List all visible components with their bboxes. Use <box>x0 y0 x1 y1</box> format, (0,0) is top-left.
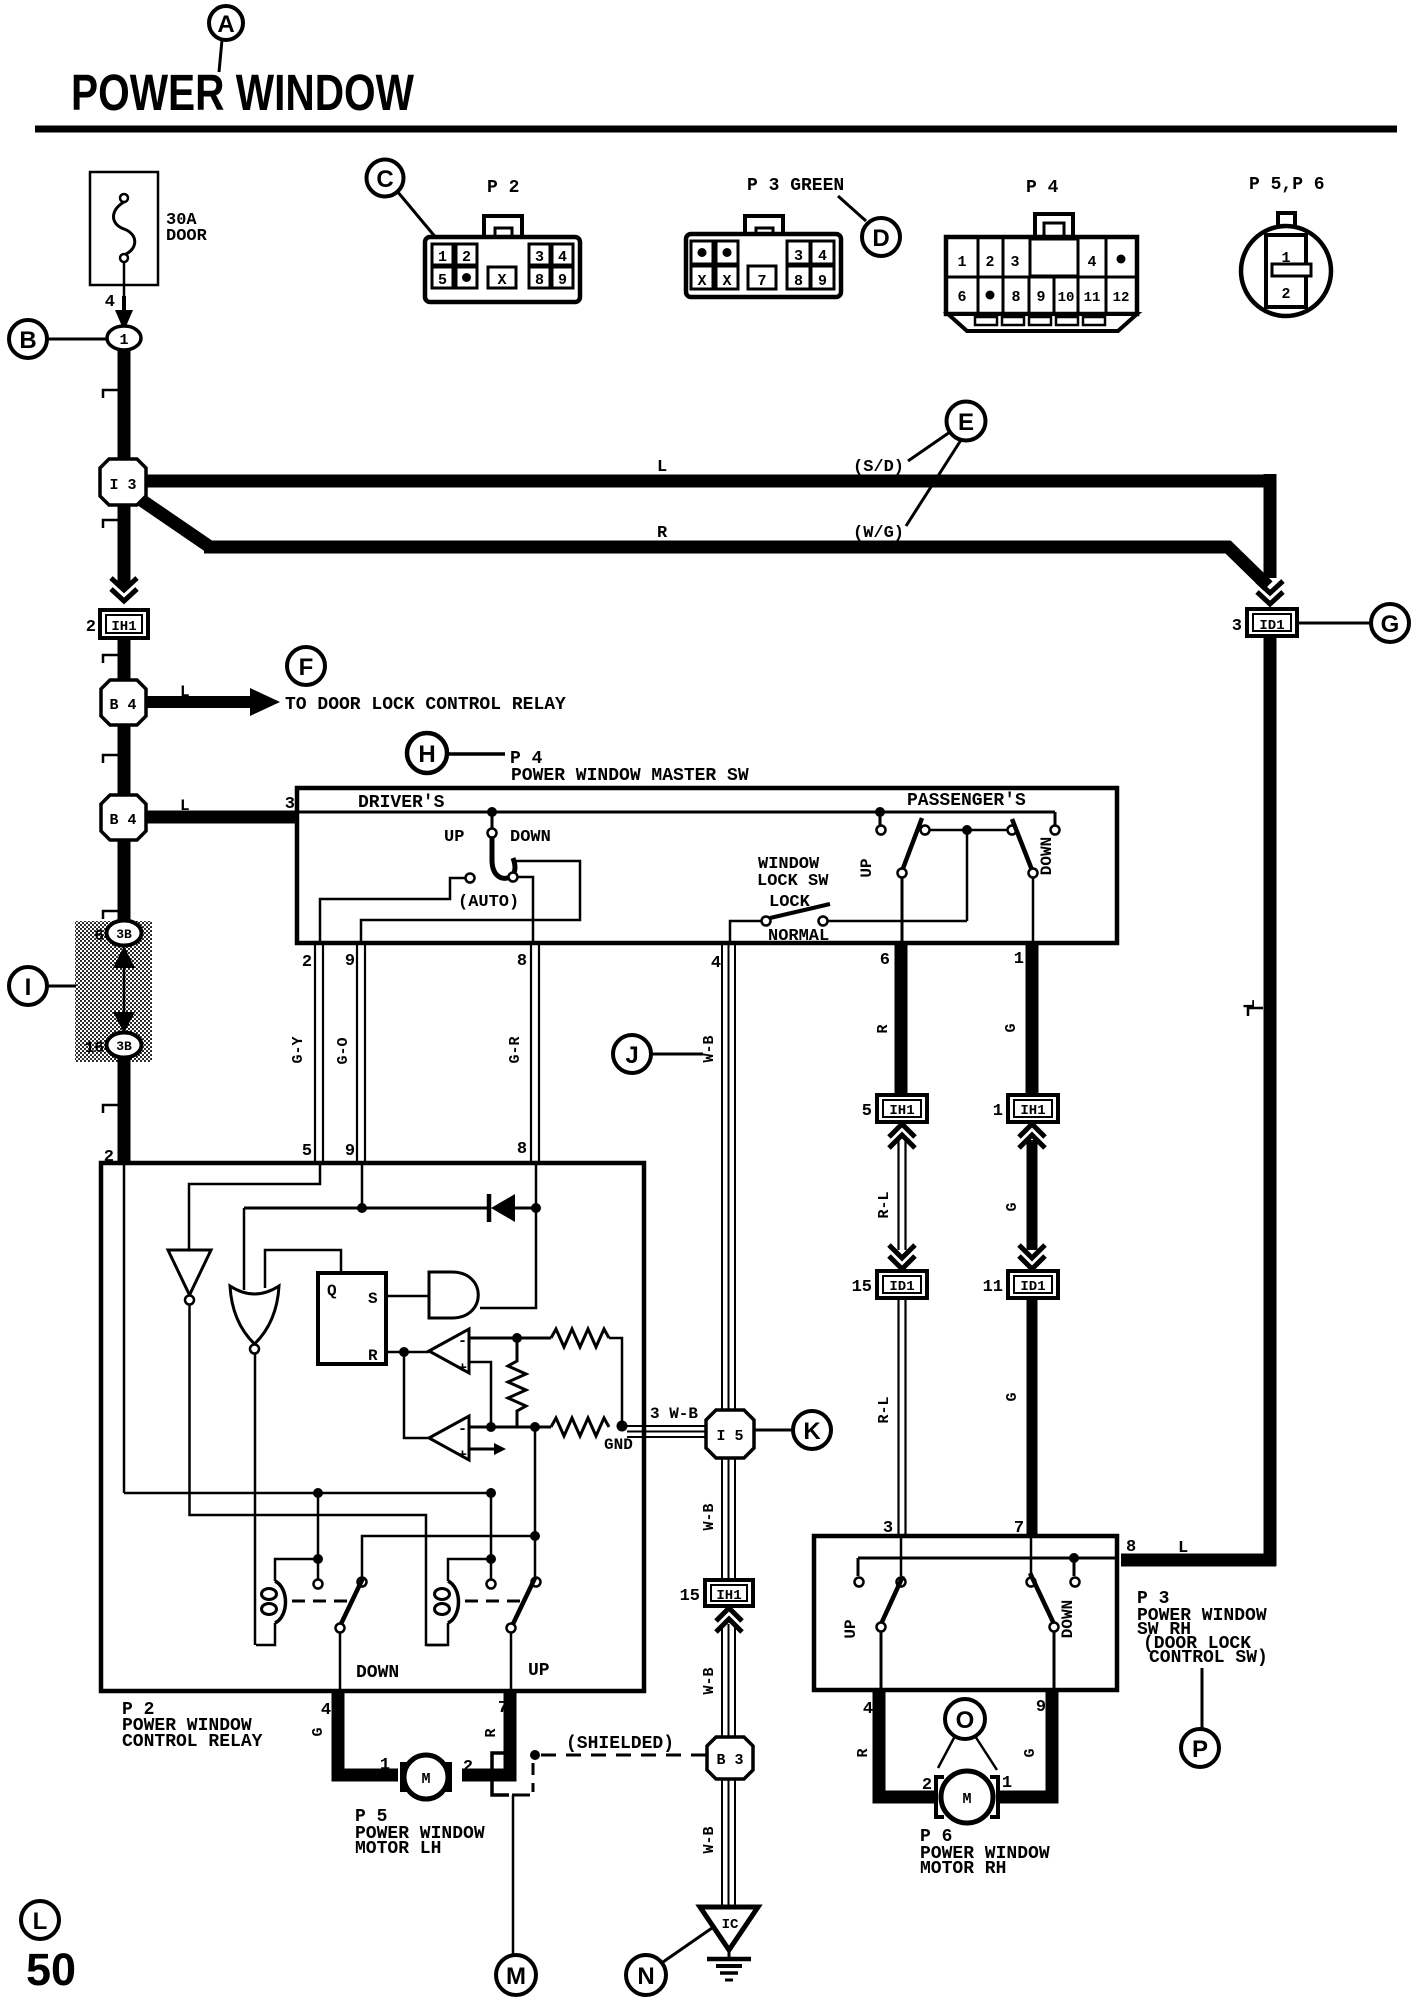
svg-text:2: 2 <box>985 254 994 271</box>
svg-text:A: A <box>217 11 234 38</box>
connector 3 ID1 top right <box>1232 609 1297 636</box>
comparator 1 <box>429 1329 469 1377</box>
node passenger feed <box>875 807 885 817</box>
pin 7 contact <box>1030 1538 1033 1576</box>
driver switch common contact <box>491 812 494 828</box>
relay UP blade <box>512 1578 535 1626</box>
wire pin2 inner <box>123 1165 126 1493</box>
svg-text:P: P <box>1192 1736 1208 1763</box>
wire R1 to GND node <box>609 1338 622 1425</box>
svg-text:9: 9 <box>558 272 567 289</box>
wire link passenger switches <box>929 829 1008 832</box>
wire feed I3 to IH1 <box>118 505 131 588</box>
callout I <box>9 967 76 1005</box>
connector P4 <box>946 178 1137 331</box>
svg-text:1: 1 <box>119 332 128 349</box>
wire comp1 plus down <box>469 1362 491 1427</box>
wire G master 1 to IH1 <box>1026 943 1039 1096</box>
motor LH M <box>380 1755 473 1799</box>
svg-text:K: K <box>803 1418 821 1445</box>
svg-text:8: 8 <box>794 273 803 290</box>
driver auto contact <box>466 874 475 883</box>
svg-text:G: G <box>1003 1023 1020 1032</box>
svg-text:6: 6 <box>94 927 104 945</box>
chevron arrow into IH1 <box>111 578 137 590</box>
svg-text:5: 5 <box>438 272 447 289</box>
callout P <box>1181 1668 1219 1767</box>
pin 4 bar to motor RH <box>879 1690 935 1797</box>
callout B <box>9 320 107 358</box>
svg-text:R: R <box>855 1748 872 1757</box>
svg-text:2: 2 <box>302 953 312 972</box>
callout F <box>287 647 325 685</box>
svg-text:8: 8 <box>517 952 527 971</box>
DOWN blade RH <box>1030 1573 1054 1624</box>
wire fixed contact row <box>534 1427 537 1536</box>
svg-text:L: L <box>33 1908 48 1935</box>
svg-text:3: 3 <box>1010 254 1019 271</box>
svg-text:4: 4 <box>321 1701 331 1720</box>
wire shielded dashed to B3 <box>541 1754 706 1757</box>
svg-text:DOWN: DOWN <box>1059 1600 1077 1638</box>
power window control relay box P2 <box>101 1163 644 1691</box>
tick <box>103 655 118 663</box>
node I 3 octagon <box>100 459 146 505</box>
svg-text:ID1: ID1 <box>889 1279 914 1295</box>
svg-text:L: L <box>1241 999 1259 1009</box>
NOR gate <box>230 1286 279 1344</box>
tick <box>103 390 118 398</box>
svg-text:UP: UP <box>528 1661 550 1681</box>
svg-text:1: 1 <box>993 1102 1003 1121</box>
svg-text:PASSENGER'S: PASSENGER'S <box>907 791 1026 811</box>
wire bus master sw <box>299 811 1055 814</box>
svg-text:+: + <box>458 1447 467 1464</box>
wire W-B B3 to ground <box>721 1779 723 1906</box>
callout N <box>626 1928 712 1995</box>
wire W-B master 4 to I5 <box>721 944 723 1412</box>
svg-text:G: G <box>310 1727 327 1736</box>
connector 2 IH1 <box>86 610 148 638</box>
wire auto contact to pin 2 <box>320 878 465 943</box>
svg-text:W-B: W-B <box>701 1035 718 1062</box>
svg-text:3 W-B: 3 W-B <box>650 1405 698 1423</box>
relay DOWN coil branch <box>317 1493 320 1556</box>
wire blade top to pin 9 <box>361 861 580 943</box>
svg-text:+: + <box>458 1360 467 1377</box>
chevron up below 1 IH1 <box>1019 1124 1045 1137</box>
tick on right bar <box>1248 1008 1263 1016</box>
wire R main bar <box>204 541 1230 554</box>
svg-text:B 4: B 4 <box>109 812 136 829</box>
callout H <box>407 733 505 773</box>
title rule <box>35 126 1397 133</box>
wire passenger up to pin 6 <box>901 877 904 943</box>
svg-text:9: 9 <box>1036 1698 1046 1717</box>
callout E <box>906 402 986 527</box>
svg-text:E: E <box>958 409 974 436</box>
svg-text:7: 7 <box>498 1699 508 1718</box>
connector 1 IH1 <box>993 1095 1058 1122</box>
relay UP coil branch <box>490 1493 493 1556</box>
wire comp1 minus to R1 <box>469 1337 551 1340</box>
svg-text:R: R <box>368 1347 378 1365</box>
wire lock sw to passenger center <box>828 920 967 923</box>
svg-text:4: 4 <box>105 293 115 312</box>
svg-text:G: G <box>1022 1748 1039 1757</box>
wire B4 down to junction block <box>118 840 131 921</box>
passenger down blade <box>1008 826 1017 835</box>
svg-text:(SHIELDED): (SHIELDED) <box>566 1734 674 1754</box>
svg-text:IH1: IH1 <box>716 1588 741 1604</box>
chevron down above 11 ID1 <box>1019 1245 1045 1258</box>
chevron down above 15 ID1 <box>889 1245 915 1258</box>
callout O <box>938 1699 997 1770</box>
wire diode row <box>244 1207 489 1210</box>
svg-text:D: D <box>872 225 889 252</box>
wire bus right end contact <box>1054 812 1057 825</box>
wire up blade to pin 4 <box>880 1632 883 1690</box>
svg-text:1: 1 <box>957 254 966 271</box>
svg-text:2: 2 <box>922 1776 932 1795</box>
svg-text:DOOR: DOOR <box>166 227 208 246</box>
svg-text:10: 10 <box>1058 290 1075 306</box>
svg-text:MOTOR RH: MOTOR RH <box>920 1859 1006 1879</box>
tick <box>103 1105 118 1113</box>
svg-text:3: 3 <box>1232 617 1242 636</box>
UP blade RH <box>881 1576 903 1624</box>
svg-text:S: S <box>368 1290 378 1308</box>
svg-text:4: 4 <box>1087 254 1096 271</box>
svg-text:15: 15 <box>680 1587 700 1606</box>
svg-text:L: L <box>180 683 190 701</box>
svg-text:ID1: ID1 <box>1259 618 1284 634</box>
svg-text:I 3: I 3 <box>109 477 136 494</box>
node shield <box>530 1750 540 1760</box>
wire G to P3 pin 7 <box>1027 1298 1038 1536</box>
svg-text:3: 3 <box>535 249 544 266</box>
pin 7 bar to motor LH <box>462 1691 510 1775</box>
svg-text:IH1: IH1 <box>111 619 136 635</box>
svg-text:POWER WINDOW MASTER SW: POWER WINDOW MASTER SW <box>511 766 749 786</box>
svg-text:(W/G): (W/G) <box>853 524 904 543</box>
svg-text:X: X <box>722 273 731 290</box>
svg-text:7: 7 <box>757 273 766 290</box>
svg-text:G-R: G-R <box>507 1036 524 1063</box>
svg-text:3B: 3B <box>116 927 132 942</box>
svg-text:6: 6 <box>957 289 966 306</box>
connector 15 IH1 <box>680 1580 753 1606</box>
pin 9 bar to motor RH <box>1000 1690 1052 1797</box>
wire G-R master 8 to relay 8 <box>530 944 532 1163</box>
svg-text:UP: UP <box>858 858 876 877</box>
wire pin8 inner <box>535 1165 538 1208</box>
wire diode node to AND out <box>480 1208 536 1308</box>
wire junction block to relay <box>118 1057 131 1163</box>
svg-text:R: R <box>875 1024 892 1033</box>
svg-text:POWER WINDOW: POWER WINDOW <box>71 64 415 121</box>
svg-text:B: B <box>19 327 36 354</box>
node B 3 octagon <box>707 1737 753 1779</box>
wire shield to M callout <box>512 1795 515 1954</box>
relay DOWN blade <box>340 1578 363 1626</box>
svg-text:4: 4 <box>818 248 827 265</box>
svg-text:I 5: I 5 <box>716 1428 743 1445</box>
svg-text:B 4: B 4 <box>109 697 136 714</box>
chevron up below 5 IH1 <box>889 1124 915 1137</box>
svg-text:IH1: IH1 <box>889 1103 914 1119</box>
svg-text:G-Y: G-Y <box>290 1036 307 1063</box>
wire L corner vertical right <box>1264 474 1277 578</box>
svg-text:X: X <box>697 273 706 290</box>
tick <box>103 911 118 919</box>
shield bracket <box>492 1753 509 1795</box>
svg-text:11: 11 <box>983 1278 1003 1297</box>
wire G between connectors <box>1027 1140 1038 1250</box>
svg-text:8: 8 <box>517 1140 527 1159</box>
svg-text:9: 9 <box>818 273 827 290</box>
wire G-Y master 2 to relay 5 <box>314 944 316 1163</box>
chevron arrow into ID1 <box>1257 581 1283 593</box>
svg-text:2: 2 <box>463 1758 473 1777</box>
pin 4 bar to motor LH <box>338 1691 398 1775</box>
svg-text:16: 16 <box>85 1039 104 1057</box>
connector P2 <box>425 178 580 302</box>
svg-text:3B: 3B <box>116 1039 132 1054</box>
svg-text:L: L <box>657 458 667 477</box>
wire pin5 to inverter <box>189 1165 320 1250</box>
svg-text:2: 2 <box>1281 286 1290 303</box>
resistor R3 <box>551 1418 609 1436</box>
svg-text:R-L: R-L <box>876 1191 893 1218</box>
node GND <box>617 1421 628 1432</box>
svg-text:9: 9 <box>1036 289 1045 306</box>
svg-text:DOWN: DOWN <box>1038 837 1056 875</box>
svg-text:CONTROL SW): CONTROL SW) <box>1149 1648 1268 1668</box>
inverter gate <box>168 1250 211 1295</box>
wire W-B I5 to IH1 <box>721 1458 723 1580</box>
wire R diagonal to right corner <box>1226 545 1268 586</box>
svg-text:I: I <box>25 974 32 1001</box>
arrow down <box>113 1012 135 1033</box>
chevron up below 15 IH1 <box>716 1608 742 1621</box>
svg-text:LOCK SW: LOCK SW <box>757 872 829 891</box>
svg-text:2: 2 <box>462 249 471 266</box>
comparator 2 <box>429 1416 506 1464</box>
wire center link down to lock line <box>966 830 969 921</box>
svg-text:12: 12 <box>1113 290 1130 306</box>
svg-text:R-L: R-L <box>876 1396 893 1423</box>
wire S input <box>386 1295 429 1298</box>
relay coil DOWN <box>275 1559 318 1581</box>
svg-text:8: 8 <box>1011 289 1020 306</box>
node B 4 octagon 2 <box>101 795 146 840</box>
svg-text:M: M <box>962 1791 971 1808</box>
svg-text:-: - <box>458 1421 467 1438</box>
svg-text:9: 9 <box>345 1142 355 1161</box>
svg-text:C: C <box>376 166 393 193</box>
wire to NOR left input <box>243 1208 246 1290</box>
svg-text:M: M <box>506 1963 526 1990</box>
svg-text:UP: UP <box>444 828 464 847</box>
wire between ovals <box>123 960 126 1020</box>
connector 15 ID1 <box>852 1271 927 1298</box>
svg-text:H: H <box>418 741 435 768</box>
wire relay contact feed row <box>124 1492 491 1495</box>
driver switch blade <box>492 838 515 878</box>
svg-text:M: M <box>421 1771 430 1788</box>
svg-text:50: 50 <box>26 1944 76 1995</box>
svg-text:1: 1 <box>438 249 447 266</box>
wire pin9 down <box>361 1165 364 1208</box>
svg-text:(S/D): (S/D) <box>853 458 904 477</box>
wire 3 W-B out of relay <box>622 1425 708 1427</box>
svg-text:15: 15 <box>852 1278 872 1297</box>
tick <box>103 520 118 528</box>
wire main feed vertical top <box>118 350 131 461</box>
wire IH1 to B4 <box>118 638 131 681</box>
wire B4 to master sw pin 3 <box>146 811 297 824</box>
svg-text:W-B: W-B <box>701 1503 718 1530</box>
tick <box>103 755 118 763</box>
svg-text:G-O: G-O <box>335 1037 352 1064</box>
svg-text:5: 5 <box>302 1142 312 1161</box>
wire R master 6 to IH1 <box>895 943 908 1096</box>
svg-text:P 4: P 4 <box>1026 178 1059 198</box>
svg-text:L: L <box>180 797 190 815</box>
callout L <box>21 1901 59 1939</box>
svg-text:-: - <box>458 1333 467 1350</box>
wire NOR out to coil <box>254 1353 257 1645</box>
svg-text:5: 5 <box>862 1102 872 1121</box>
svg-text:Q: Q <box>327 1282 337 1300</box>
svg-text:IC: IC <box>722 1917 739 1933</box>
fuse 30A DOOR <box>90 172 208 285</box>
node 1 oval <box>107 326 141 350</box>
bus left drop contact <box>857 1558 860 1576</box>
svg-text:J: J <box>625 1042 638 1069</box>
svg-text:1: 1 <box>380 1756 390 1775</box>
node I 5 octagon <box>706 1410 754 1458</box>
dashed link DOWN <box>292 1600 348 1603</box>
svg-text:X: X <box>497 272 506 289</box>
power window sw RH box P3 <box>814 1536 1117 1690</box>
svg-text:B 3: B 3 <box>716 1752 743 1769</box>
svg-text:9: 9 <box>345 952 355 971</box>
resistor R1 <box>551 1329 609 1347</box>
motor RH M <box>922 1771 1012 1823</box>
wire L bottom horizontal into P3 pin 8 <box>1121 1554 1276 1567</box>
svg-text:ID1: ID1 <box>1020 1279 1045 1295</box>
callout D <box>862 218 900 256</box>
svg-text:G: G <box>1381 611 1400 638</box>
svg-text:TO DOOR LOCK CONTROL RELAY: TO DOOR LOCK CONTROL RELAY <box>285 695 566 715</box>
wire R input <box>386 1351 429 1354</box>
svg-text:MOTOR LH: MOTOR LH <box>355 1839 441 1859</box>
wire G-O master 9 to relay 9 <box>356 944 358 1163</box>
wire L main bar horizontal <box>146 475 1270 488</box>
wire W-B IH1 to B3 <box>721 1624 723 1737</box>
wire R-L to P3 pin 3 <box>897 1298 899 1536</box>
callout C <box>367 160 438 240</box>
wire R-L between connectors <box>897 1140 899 1250</box>
arrow up <box>113 946 135 968</box>
resistor R2 vertical <box>508 1338 526 1427</box>
node B 4 octagon 1 <box>101 680 146 725</box>
svg-text:N: N <box>637 1963 654 1990</box>
svg-text:W-B: W-B <box>701 1826 718 1853</box>
callout K <box>754 1411 831 1449</box>
svg-text:R: R <box>483 1728 500 1737</box>
ground IC <box>700 1907 758 1980</box>
wire L right vertical long <box>1264 636 1277 1566</box>
svg-text:3: 3 <box>285 795 295 814</box>
svg-text:8: 8 <box>535 272 544 289</box>
passenger up blade <box>902 818 922 871</box>
svg-text:1: 1 <box>1002 1774 1012 1793</box>
relay coil UP <box>448 1559 491 1581</box>
svg-text:O: O <box>956 1707 975 1734</box>
arrow into node 1 <box>115 310 133 331</box>
svg-text:P 3 GREEN: P 3 GREEN <box>747 176 844 196</box>
svg-text:R: R <box>657 524 668 543</box>
wire passenger down to pin 1 <box>1032 877 1035 943</box>
svg-text:1: 1 <box>1014 950 1024 969</box>
lock switch left contact <box>762 917 771 926</box>
connector 5 IH1 <box>862 1095 927 1122</box>
node 16 3B oval <box>85 1033 142 1058</box>
callout J <box>613 1035 703 1073</box>
flip-flop box <box>318 1273 386 1365</box>
diode <box>487 1194 492 1222</box>
connector P3 GREEN <box>686 176 866 297</box>
svg-text:4: 4 <box>863 1700 873 1719</box>
svg-text:2: 2 <box>86 618 96 637</box>
junction block shaded area <box>75 921 152 1062</box>
svg-text:(AUTO): (AUTO) <box>458 893 519 912</box>
svg-text:P 5,P 6: P 5,P 6 <box>1249 175 1325 195</box>
svg-text:4: 4 <box>711 954 721 973</box>
callout M <box>496 1955 536 1995</box>
svg-text:G: G <box>1004 1202 1021 1211</box>
svg-text:6: 6 <box>880 951 890 970</box>
wire comp2 out to R node <box>404 1352 429 1438</box>
svg-text:NORMAL: NORMAL <box>768 927 829 946</box>
svg-text:P 2: P 2 <box>487 178 519 198</box>
wire Q to NOR right input <box>265 1250 341 1288</box>
svg-text:G: G <box>1004 1392 1021 1401</box>
node driver common <box>487 807 497 817</box>
callout G <box>1297 604 1409 642</box>
wire inverter out to up coil <box>190 1305 447 1645</box>
svg-text:IH1: IH1 <box>1020 1103 1045 1119</box>
wire lock sw to pin 4 <box>730 921 761 943</box>
svg-text:CONTROL RELAY: CONTROL RELAY <box>122 1732 263 1752</box>
svg-text:DOWN: DOWN <box>356 1663 399 1683</box>
wire GND row <box>469 1426 551 1429</box>
callout A <box>209 6 243 72</box>
wire down contact to pin 8 <box>518 877 533 943</box>
connector P5,P6 <box>1241 175 1331 316</box>
svg-text:L: L <box>1178 1539 1188 1558</box>
svg-text:11: 11 <box>1084 290 1101 306</box>
wire arrow to door lock control relay <box>146 696 252 708</box>
svg-text:4: 4 <box>558 249 567 266</box>
bus right drop contact <box>1073 1558 1076 1576</box>
driver down contact <box>509 873 518 882</box>
svg-text:DRIVER'S: DRIVER'S <box>358 793 445 813</box>
node 6 3B oval <box>94 921 141 946</box>
